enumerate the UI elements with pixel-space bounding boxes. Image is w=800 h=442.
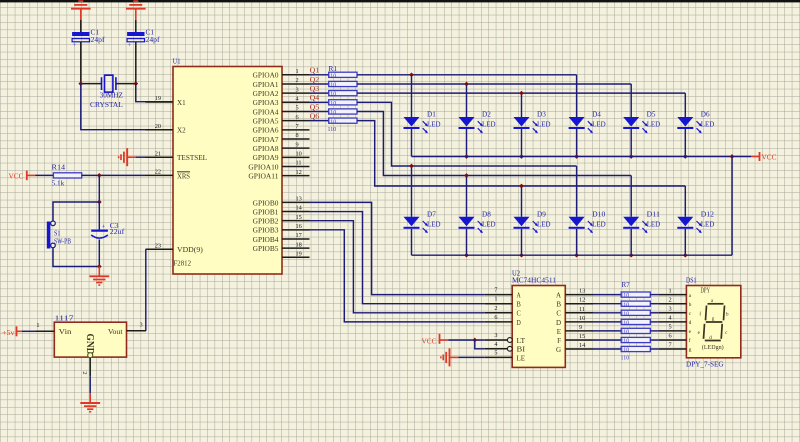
wire (VCC bus top)	[412, 156, 733, 158]
junction	[629, 253, 634, 258]
svg-text:BI: BI	[517, 346, 526, 354]
pin 6 (D)	[485, 314, 521, 327]
pin 20 (X2)	[146, 123, 187, 135]
value 110	[621, 354, 630, 361]
pin 4 (BI)	[485, 341, 526, 354]
value 110	[621, 347, 630, 354]
junction	[409, 164, 414, 169]
resistor R14 5.1k	[52, 163, 82, 187]
svg-text:15: 15	[579, 333, 585, 340]
wire	[684, 186, 686, 217]
wire	[411, 129, 413, 157]
pin 1 (Vin)	[36, 322, 72, 336]
wire (VCC bus bottom)	[412, 254, 733, 256]
svg-text:Q6: Q6	[310, 113, 320, 120]
svg-text:A: A	[517, 292, 521, 300]
junction	[683, 253, 688, 258]
junction	[574, 253, 579, 258]
wire	[357, 92, 685, 94]
pin 14 (G)	[556, 342, 593, 354]
pin 17 (GPIOB4)	[253, 232, 310, 244]
pin 7 (g)	[659, 342, 692, 354]
display DS1 DPY_7-SEG body	[686, 286, 740, 358]
regulator U3 1117 body	[54, 322, 126, 357]
wire	[36, 174, 54, 176]
svg-text:20: 20	[155, 123, 161, 130]
7-segment glyph	[698, 299, 729, 341]
svg-text:110: 110	[328, 109, 337, 116]
svg-text:CRYSTAL: CRYSTAL	[90, 100, 123, 109]
pin 1 (GPIOA0)	[253, 68, 310, 80]
svg-text:S1: S1	[54, 229, 61, 237]
svg-text:18: 18	[296, 241, 302, 248]
value 110	[621, 320, 630, 327]
IC U2 MC74HC4511 body	[512, 286, 565, 368]
svg-text:21: 21	[155, 150, 161, 157]
svg-text:U1: U1	[173, 58, 181, 66]
svg-text:D5: D5	[647, 111, 656, 119]
value 110	[328, 100, 337, 107]
wire	[310, 202, 485, 294]
svg-text:D2: D2	[482, 111, 491, 119]
pin 5 (LE)	[485, 349, 525, 362]
svg-text:GPIOA4: GPIOA4	[253, 108, 279, 116]
wire	[731, 157, 733, 256]
pin 2 (b)	[659, 296, 692, 308]
wire	[82, 174, 146, 176]
wire	[89, 376, 91, 393]
wire	[593, 339, 621, 341]
svg-text:VCC: VCC	[762, 154, 777, 162]
svg-text:+: +	[102, 223, 106, 230]
power port VCC (U2)	[422, 334, 449, 346]
junction	[464, 173, 469, 178]
svg-text:13: 13	[579, 288, 585, 295]
wire	[310, 230, 485, 322]
wire	[310, 92, 329, 94]
svg-text:Q3: Q3	[310, 86, 320, 93]
svg-text:XRS: XRS	[177, 172, 190, 180]
pin 11 (C)	[556, 306, 593, 318]
wire	[357, 121, 685, 186]
pin 22 (XRS)	[146, 169, 191, 181]
pin 12 (B)	[556, 297, 593, 309]
wire	[475, 340, 485, 349]
svg-text:Vin: Vin	[59, 328, 72, 336]
label DPY	[701, 286, 711, 294]
wire	[576, 229, 578, 255]
svg-text:LED: LED	[647, 220, 661, 228]
svg-text:2: 2	[81, 371, 88, 374]
resistor R7.6	[621, 337, 650, 342]
pin 3 (c)	[659, 306, 692, 318]
junction	[409, 72, 414, 77]
wire	[53, 248, 99, 267]
svg-text:VCC: VCC	[9, 172, 24, 180]
pin 7 (A)	[485, 287, 521, 300]
capacitor C3 22uf	[91, 222, 125, 238]
pin 6 (f)	[659, 333, 691, 345]
resistor R7.7	[621, 346, 650, 351]
svg-text:LED: LED	[482, 121, 496, 129]
wire	[411, 166, 413, 217]
wire	[576, 166, 578, 217]
net label Q1	[310, 68, 320, 75]
svg-text:GPIOA7: GPIOA7	[253, 136, 279, 144]
svg-text:LE: LE	[517, 354, 526, 362]
pin 2 (GND)	[81, 353, 93, 377]
wire	[357, 83, 631, 85]
resistor R1.2	[329, 81, 357, 86]
svg-text:7: 7	[494, 287, 497, 294]
svg-text:30MHZ: 30MHZ	[100, 90, 124, 99]
wire	[53, 202, 99, 221]
svg-text:E: E	[557, 328, 561, 336]
svg-text:3: 3	[669, 306, 672, 313]
svg-text:VDD(9): VDD(9)	[177, 246, 204, 254]
net label Q5	[310, 104, 320, 111]
wire	[732, 156, 751, 158]
svg-text:12: 12	[296, 169, 302, 176]
wire	[593, 294, 621, 296]
wire	[684, 129, 686, 157]
pin 11 (GPIOA10)	[248, 160, 309, 172]
svg-text:10: 10	[579, 315, 585, 322]
wire	[593, 321, 621, 323]
pin 1 (B)	[485, 296, 521, 309]
svg-text:Q5: Q5	[310, 104, 320, 111]
pin 9 (E)	[557, 324, 593, 336]
ground (LE)	[441, 348, 458, 366]
svg-text:110: 110	[621, 292, 630, 299]
svg-text:GPIOB0: GPIOB0	[253, 199, 279, 207]
svg-text:8: 8	[296, 132, 299, 139]
svg-text:1: 1	[669, 287, 672, 294]
pin 19	[282, 250, 310, 257]
value 110	[328, 118, 337, 125]
wire	[466, 229, 468, 255]
pin 13 (GPIOB0)	[253, 196, 310, 208]
wire	[411, 229, 413, 255]
svg-text:14: 14	[296, 205, 303, 212]
svg-text:1: 1	[296, 68, 299, 75]
wire	[81, 83, 102, 85]
wire	[576, 75, 578, 117]
wire	[650, 303, 659, 305]
pin 7 (GPIOA6)	[253, 123, 310, 135]
wire	[98, 240, 100, 267]
net label Q4	[310, 95, 320, 102]
junction	[519, 184, 524, 189]
junction	[730, 154, 735, 159]
wire	[521, 93, 523, 117]
wire	[458, 356, 484, 358]
pin 15 (F)	[557, 333, 593, 345]
label DS1	[686, 277, 697, 285]
value 110	[621, 338, 630, 345]
label DPY_7-SEG	[686, 361, 724, 369]
svg-text:19: 19	[155, 95, 161, 102]
svg-text:F: F	[557, 337, 561, 345]
junction	[464, 154, 469, 159]
svg-text:LED: LED	[482, 220, 496, 228]
wire	[310, 110, 329, 112]
svg-text:Q1: Q1	[310, 68, 320, 75]
pin 14 (GPIOB1)	[253, 205, 310, 217]
label GND (pin 2)	[84, 334, 95, 355]
svg-text:VCC: VCC	[422, 337, 437, 345]
pin 16 (GPIOB3)	[253, 223, 310, 235]
junction	[519, 91, 524, 96]
junction	[133, 81, 138, 86]
pin 23 (VDD(9))	[146, 242, 204, 254]
svg-text:LED: LED	[647, 121, 661, 129]
svg-text:GPIOA11: GPIOA11	[248, 173, 279, 181]
junction	[683, 154, 688, 159]
junction	[519, 253, 524, 258]
resistor R7.1	[621, 292, 650, 297]
svg-text:B: B	[556, 301, 561, 309]
wire	[357, 102, 577, 166]
svg-text:15: 15	[296, 214, 302, 221]
svg-text:LED: LED	[701, 220, 715, 228]
pin 10 (GPIOA9)	[253, 151, 310, 163]
LED D3	[514, 111, 551, 134]
svg-text:GPIOB3: GPIOB3	[253, 227, 279, 235]
wire	[466, 129, 468, 157]
svg-text:11: 11	[296, 160, 302, 167]
svg-text:14: 14	[579, 342, 586, 349]
svg-text:GPIOA1: GPIOA1	[253, 81, 279, 89]
label F2812	[174, 260, 192, 268]
svg-text:23: 23	[155, 242, 161, 249]
svg-text:6: 6	[494, 314, 497, 321]
svg-text:3: 3	[140, 322, 143, 329]
svg-text:D6: D6	[701, 111, 710, 119]
svg-text:7: 7	[296, 123, 299, 130]
label R7	[622, 281, 631, 289]
value 110	[328, 72, 337, 79]
value 110	[621, 329, 630, 336]
wire	[630, 229, 632, 255]
svg-text:110: 110	[621, 347, 630, 354]
wire	[684, 229, 686, 255]
svg-text:110: 110	[621, 320, 630, 327]
svg-text:LED: LED	[537, 220, 551, 228]
wire	[135, 42, 137, 84]
wire	[310, 83, 329, 85]
junction	[78, 81, 83, 86]
svg-text:GPIOB4: GPIOB4	[253, 236, 279, 244]
svg-text:D: D	[556, 319, 561, 327]
svg-text:13: 13	[296, 196, 302, 203]
wire	[650, 330, 659, 332]
value 110	[328, 109, 337, 116]
resistor R1.3	[329, 91, 357, 96]
svg-text:1: 1	[36, 322, 39, 329]
svg-text:X2: X2	[177, 127, 186, 135]
LED D4	[569, 111, 606, 134]
pin 8 (GPIOA7)	[253, 132, 310, 144]
wire	[650, 348, 659, 350]
svg-text:F2812: F2812	[174, 260, 192, 268]
pin 21 (TESTSEL)	[146, 150, 208, 162]
pin 1 (a)	[659, 287, 692, 299]
pin 4 (d)	[659, 315, 692, 327]
svg-text:11: 11	[579, 306, 585, 313]
svg-text:110: 110	[328, 100, 337, 107]
wire	[650, 294, 659, 296]
svg-text:LED: LED	[592, 121, 606, 129]
wire	[630, 129, 632, 157]
svg-text:110: 110	[328, 118, 337, 125]
resistor R7.4	[621, 319, 650, 324]
svg-text:3: 3	[494, 332, 497, 339]
wire	[80, 42, 82, 84]
pin 2 (GPIOA1)	[253, 77, 310, 89]
junction	[472, 338, 477, 343]
resistor R1.5	[329, 109, 357, 114]
svg-text:D11: D11	[647, 211, 661, 219]
svg-text:D7: D7	[427, 211, 436, 219]
value 110	[328, 126, 337, 133]
junction	[519, 154, 524, 159]
svg-text:2: 2	[494, 305, 497, 312]
svg-text:D3: D3	[537, 111, 546, 119]
svg-text:19: 19	[296, 250, 302, 257]
value 110	[621, 301, 630, 308]
wire	[357, 111, 631, 175]
svg-text:GPIOA9: GPIOA9	[253, 154, 279, 162]
wire	[650, 312, 659, 314]
value 110	[328, 82, 337, 89]
pin 13 (A)	[556, 288, 593, 300]
wire	[593, 348, 621, 350]
svg-text:110: 110	[328, 82, 337, 89]
svg-text:+5v: +5v	[2, 329, 15, 337]
svg-text:Q4: Q4	[310, 95, 320, 102]
pin 19 (X1)	[146, 95, 187, 107]
pin 18 (GPIOB5)	[253, 241, 310, 253]
LED D6	[677, 111, 714, 134]
pin 3 (Vout)	[108, 322, 146, 337]
wire	[630, 84, 632, 117]
svg-text:17: 17	[296, 232, 302, 239]
svg-text:R14: R14	[52, 163, 66, 171]
pin 10 (D)	[556, 315, 593, 327]
value 110	[328, 91, 337, 98]
wire	[576, 129, 578, 157]
LED D8	[459, 211, 496, 234]
svg-text:X1: X1	[177, 99, 186, 107]
svg-text:DPY: DPY	[701, 286, 711, 294]
value 110	[621, 310, 630, 317]
svg-text:110: 110	[621, 301, 630, 308]
net label Q3	[310, 86, 320, 93]
svg-text:GPIOB2: GPIOB2	[253, 218, 279, 226]
svg-text:Vout: Vout	[108, 328, 123, 336]
label MC74HC4511	[512, 276, 557, 284]
svg-text:5: 5	[296, 105, 299, 112]
svg-text:GPIOB1: GPIOB1	[253, 208, 279, 216]
svg-text:10: 10	[296, 151, 302, 158]
LED D10	[569, 211, 606, 234]
svg-text:D12: D12	[701, 211, 715, 219]
pin 3 (GPIOA2)	[253, 86, 310, 98]
value 110	[621, 292, 630, 299]
junction	[464, 82, 469, 87]
wire	[98, 175, 100, 202]
svg-text:MC74HC4511: MC74HC4511	[512, 276, 557, 284]
svg-text:LED: LED	[701, 121, 715, 129]
wire	[630, 176, 632, 217]
resistor R1.1	[329, 72, 357, 77]
svg-text:7: 7	[669, 342, 672, 349]
svg-text:SW-PB: SW-PB	[54, 237, 71, 245]
svg-text:GPIOA8: GPIOA8	[253, 145, 279, 153]
svg-text:LED: LED	[427, 220, 441, 228]
wire	[135, 20, 137, 32]
svg-text:D4: D4	[592, 111, 601, 119]
resistor R1.6	[329, 118, 357, 123]
svg-text:5.1k: 5.1k	[52, 180, 65, 188]
label U1	[173, 58, 181, 66]
capacitor C1 (right) 24pf	[127, 29, 160, 49]
wire	[310, 101, 329, 103]
svg-text:110: 110	[621, 310, 630, 317]
svg-text:24pf: 24pf	[146, 36, 161, 44]
LED D2	[459, 111, 496, 134]
svg-text:110: 110	[621, 354, 630, 361]
crystal Y1 30MHZ	[90, 75, 123, 109]
wire	[521, 129, 523, 157]
ground (TESTSEL)	[119, 148, 136, 166]
wire	[650, 321, 659, 323]
wire	[521, 186, 523, 217]
svg-text:2: 2	[296, 77, 299, 84]
resistor R1.4	[329, 100, 357, 105]
svg-text:6: 6	[669, 333, 672, 340]
svg-text:+: +	[127, 42, 131, 49]
wire	[310, 120, 329, 122]
IC U1 F2812 body	[173, 67, 282, 275]
junction	[97, 173, 102, 178]
svg-text:110: 110	[621, 338, 630, 345]
switch S1 SW-PB	[47, 221, 71, 249]
svg-text:1: 1	[494, 296, 497, 303]
wire	[593, 330, 621, 332]
power port VCC (left)	[9, 171, 36, 181]
svg-text:LED: LED	[592, 220, 606, 228]
ground (S1/C3)	[89, 267, 109, 286]
wire (X1 net)	[136, 84, 173, 102]
svg-text:5: 5	[669, 324, 672, 331]
svg-text:16: 16	[296, 223, 302, 230]
svg-text:24pf: 24pf	[91, 36, 106, 44]
svg-text:GPIOA5: GPIOA5	[253, 118, 279, 126]
label U2	[512, 270, 520, 278]
svg-text:D: D	[517, 319, 521, 327]
net label Q2	[310, 77, 320, 84]
svg-text:B: B	[517, 301, 522, 309]
svg-text:D10: D10	[592, 211, 606, 219]
svg-text:LT: LT	[517, 337, 526, 345]
svg-text:5: 5	[494, 349, 497, 356]
svg-text:b: b	[689, 302, 692, 308]
svg-text:Q2: Q2	[310, 77, 320, 84]
resistor R7.3	[621, 310, 650, 315]
svg-text:GPIOB5: GPIOB5	[253, 245, 279, 253]
